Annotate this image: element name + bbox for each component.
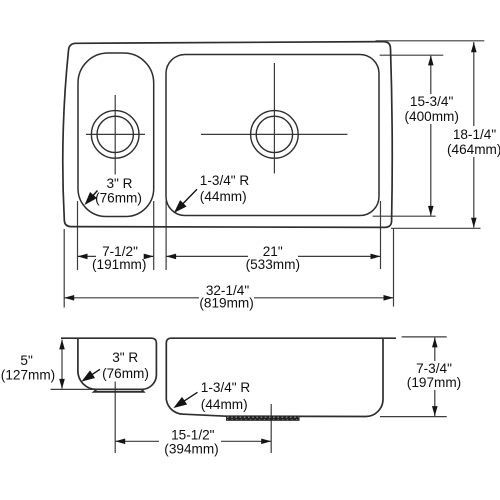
svg-text:(127mm): (127mm)	[1, 367, 55, 382]
svg-text:(464mm): (464mm)	[447, 142, 500, 157]
svg-text:1-3/4" R: 1-3/4" R	[200, 173, 250, 188]
svg-text:1-3/4" R: 1-3/4" R	[201, 380, 251, 395]
svg-text:3" R: 3" R	[112, 350, 138, 365]
svg-text:5": 5"	[20, 353, 33, 368]
svg-text:(819mm): (819mm)	[199, 296, 253, 311]
svg-text:18-1/4": 18-1/4"	[453, 127, 497, 142]
svg-text:(191mm): (191mm)	[92, 257, 146, 272]
svg-text:(44mm): (44mm)	[200, 189, 247, 204]
svg-text:(400mm): (400mm)	[405, 109, 459, 124]
svg-text:(76mm): (76mm)	[95, 191, 142, 206]
svg-text:15-3/4": 15-3/4"	[410, 94, 454, 109]
svg-text:15-1/2": 15-1/2"	[171, 427, 215, 442]
svg-text:(44mm): (44mm)	[201, 397, 248, 412]
svg-text:3" R: 3" R	[107, 176, 133, 191]
svg-text:7-3/4": 7-3/4"	[416, 361, 452, 376]
svg-text:(533mm): (533mm)	[246, 257, 300, 272]
svg-text:(394mm): (394mm)	[164, 442, 218, 457]
svg-text:(76mm): (76mm)	[102, 366, 149, 381]
svg-text:(197mm): (197mm)	[407, 375, 461, 390]
